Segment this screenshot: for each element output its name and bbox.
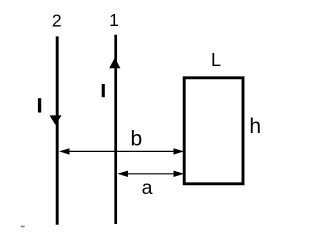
current arrow on wire 2 (down) xyxy=(50,115,62,125)
label I near wire 2 xyxy=(38,98,41,112)
current arrow on wire 1 (up) xyxy=(109,58,120,69)
svg-text:b: b xyxy=(130,127,142,150)
dimension arrow b (wire2 to loop) xyxy=(61,150,181,152)
wire 2 xyxy=(56,36,59,224)
rectangular loop xyxy=(184,78,243,184)
tiny rgb artifact bottom-left xyxy=(21,226,22,228)
wire 1 xyxy=(114,35,117,224)
svg-text:h: h xyxy=(249,115,261,138)
svg-text:2: 2 xyxy=(52,10,62,30)
svg-text:1: 1 xyxy=(109,10,119,30)
label I near wire 1 xyxy=(102,84,105,97)
svg-text:L: L xyxy=(211,50,221,70)
dimension arrow a (wire1 to loop) xyxy=(119,173,181,175)
svg-text:a: a xyxy=(142,177,153,199)
